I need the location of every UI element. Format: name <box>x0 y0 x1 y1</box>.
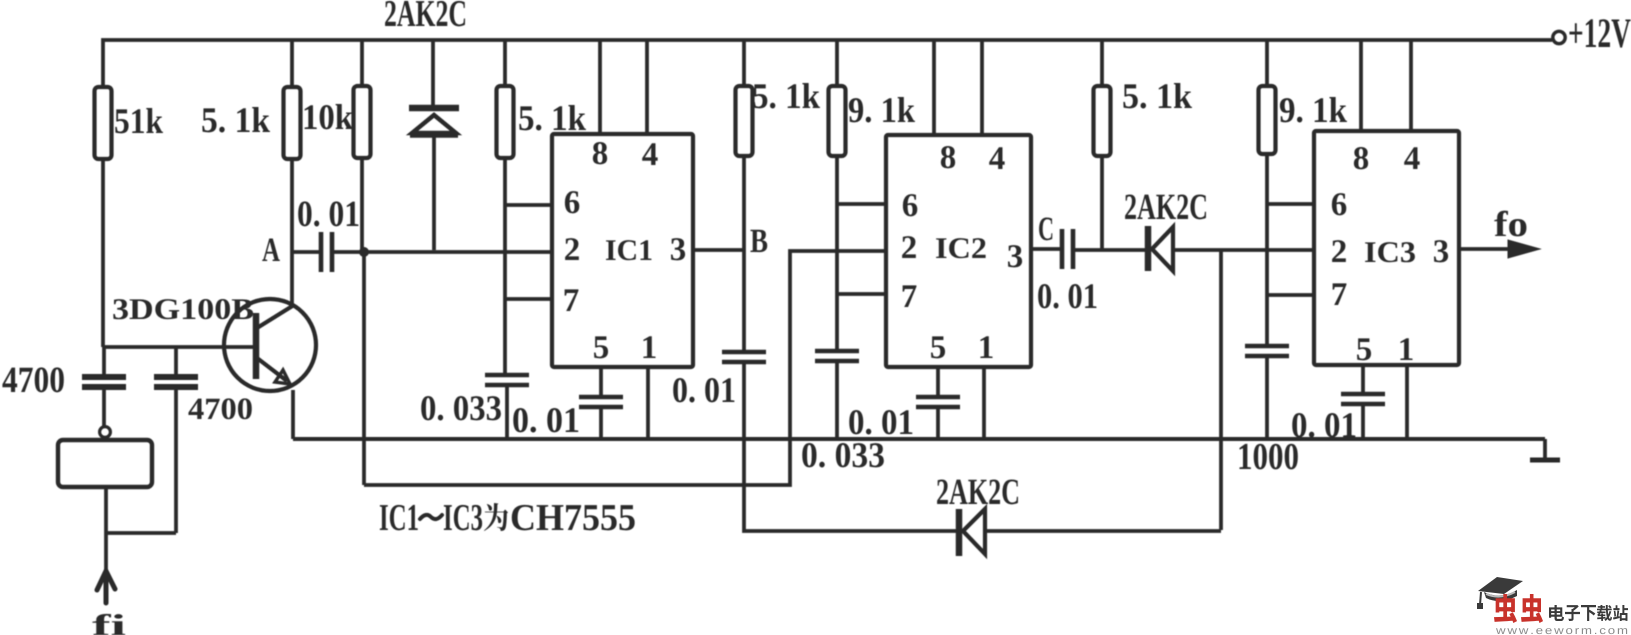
capacitor 0.01 IC3 pin5 <box>1341 392 1385 397</box>
resistor R1 51k <box>101 159 105 347</box>
crystal box <box>58 440 152 487</box>
ground symbol right end <box>1543 439 1547 459</box>
IC2 pin 1 wire down <box>982 367 986 439</box>
capacitor 0.01 coupling at A <box>319 232 324 272</box>
diode D2 2AK2C horizontal <box>1145 226 1152 271</box>
label 2AK2C top <box>385 1 465 27</box>
label 1000 <box>1239 444 1297 470</box>
IC1 pin 5 label <box>594 336 608 358</box>
wire node B cap down to bottom diode line <box>744 362 956 531</box>
IC2 pin 4 wire <box>980 41 984 135</box>
label node C <box>1039 217 1052 240</box>
+12V terminal circle <box>1553 31 1565 43</box>
IC3 pin 1 label <box>1400 338 1412 360</box>
label node A <box>262 239 280 261</box>
label fo <box>1494 211 1526 237</box>
IC1 pin 6 label <box>565 191 579 213</box>
logo graduation cap icon <box>1478 577 1523 594</box>
IC1 pin 8 wire <box>598 41 602 134</box>
power rail +12V <box>103 40 1552 87</box>
IC3 pin 6 label <box>1332 193 1346 215</box>
fo arrowhead <box>1508 240 1540 258</box>
IC3 pin 7 label <box>1333 283 1347 305</box>
junction dot node A <box>359 247 369 257</box>
label 0.01 at C <box>1038 284 1096 308</box>
IC2 pin 6 label <box>903 194 917 216</box>
resistor R8 9.1k IC3 timing <box>1265 41 1269 86</box>
IC2 pin 1 label <box>980 336 992 358</box>
capacitor C4 4700 right <box>174 347 178 374</box>
label 0.033 IC1 <box>421 396 501 420</box>
IC1 pin 3 label <box>671 238 685 260</box>
label 4700 left <box>2 367 63 392</box>
label 9.1k R6 <box>849 97 915 122</box>
wire C cap to diode D2 <box>1074 248 1145 252</box>
IC1 pin 4 wire <box>645 41 649 134</box>
IC3 pin 4 wire <box>1409 41 1413 131</box>
wire lower cross line to IC2 pin2 <box>364 251 886 485</box>
transistor Q1 3DG100B <box>224 299 316 391</box>
note IC1-IC3 is CH7555 <box>380 505 418 531</box>
label 4700 right <box>188 398 251 419</box>
transistor base bar <box>253 313 260 379</box>
IC3 pin 3 output wire fo <box>1459 247 1512 251</box>
IC1 pin 4 label <box>642 143 657 165</box>
capacitor 0.01 node B <box>722 350 766 355</box>
diode D1 2AK2C vertical <box>431 41 435 108</box>
IC1 pin 8 label <box>593 142 607 164</box>
label 0.01 IC1 pin5 <box>513 408 578 432</box>
IC2 pin 2 label <box>902 236 916 258</box>
label +12V <box>1569 19 1630 47</box>
IC3 pin 3 label <box>1434 240 1448 262</box>
label 0.033 IC2 <box>802 443 884 467</box>
IC3 pin 4 label <box>1404 147 1419 169</box>
IC3 pin 1 wire down <box>1405 365 1409 439</box>
label 3DG100B <box>113 299 253 319</box>
label 2AK2C D2 <box>1125 195 1206 220</box>
logo text dianzi xiazaizhan <box>1549 605 1564 621</box>
IC1 pin 1 wire down <box>646 367 650 439</box>
IC2 name label <box>936 238 986 258</box>
IC2 pin 3 stub to C cap <box>1031 247 1061 251</box>
label 5.1k R5 <box>753 83 820 108</box>
fi input arrow <box>97 571 115 603</box>
op-amp U1 IC1 CH7555 box <box>552 134 693 367</box>
IC3 pin 6 stub <box>1267 202 1314 206</box>
resistor R3 10k <box>360 41 364 86</box>
capacitor C2 0.033 IC1 <box>485 373 529 378</box>
resistor R5 5.1k node B pullup <box>742 41 746 86</box>
label 0.01 node B <box>673 378 734 402</box>
IC1 pin 6 stub <box>505 203 552 207</box>
label 0.01 IC2 pin5 <box>849 410 912 434</box>
transistor base lead <box>103 345 253 349</box>
label 5.1k R2 <box>202 107 270 132</box>
emitter wire to ground rail <box>291 390 295 439</box>
IC3 pin 5 wire down <box>1361 365 1365 394</box>
IC2 pin 6 stub <box>837 202 886 206</box>
IC1 pin 1 label <box>643 336 655 358</box>
logo url text <box>1496 628 1627 634</box>
IC2 pin 7 stub <box>837 292 886 296</box>
label 10k <box>305 104 353 129</box>
wire diode D2 to IC3 pin2 <box>1173 248 1314 252</box>
capacitor 0.01 IC2 pin5 <box>916 395 960 400</box>
label node B <box>750 230 767 252</box>
IC3 pin 8 wire <box>1359 41 1363 131</box>
label 2AK2C D3 <box>937 480 1018 505</box>
IC1 pin 3 stub to node B <box>693 248 744 252</box>
IC1 pin 7 stub <box>505 297 552 301</box>
IC2 pin 4 label <box>989 147 1004 169</box>
label 0.01 at A <box>298 201 358 226</box>
label 5.1k R4 <box>519 105 586 130</box>
crystal terminal circle <box>100 427 111 438</box>
capacitor 1000 IC3 <box>1245 344 1289 349</box>
capacitor 0.01 coupling C <box>1060 229 1065 269</box>
transistor emitter diagonal with arrow <box>257 358 287 381</box>
op-amp U3 IC3 CH7555 box <box>1314 131 1459 365</box>
IC3 pin 2 label <box>1332 240 1346 262</box>
IC1 pin 5 wire down <box>599 367 603 397</box>
resistor R4 5.1k IC1 timing <box>503 41 507 86</box>
resistor R7 5.1k <box>1100 41 1104 86</box>
IC1 pin 7 label <box>565 289 579 311</box>
capacitor 0.033 IC2 <box>815 349 859 354</box>
label 5.1k R7 <box>1123 83 1192 108</box>
label 0.01 IC3 pin5 <box>1292 413 1355 437</box>
label fi <box>92 614 125 635</box>
IC2 pin 5 wire down <box>936 367 940 397</box>
wire node A junction down to cross line <box>362 252 366 485</box>
capacitor C3 4700 left <box>102 347 106 374</box>
wire cap to IC1 pin2 <box>333 250 552 254</box>
IC3 pin 8 label <box>1354 147 1368 169</box>
wire junction down to bottom diode line <box>1219 250 1223 530</box>
IC2 pin 8 label <box>941 146 955 168</box>
wire bottom diode line right segment <box>985 529 1221 533</box>
ground rail horizontal <box>293 437 1545 441</box>
logo chongchong red characters <box>1494 594 1517 623</box>
IC2 pin 8 wire <box>932 41 936 135</box>
op-amp U2 IC2 CH7555 box <box>886 135 1031 367</box>
IC2 pin 7 label <box>903 285 917 307</box>
IC3 pin 7 stub <box>1267 293 1314 297</box>
wire crystal bottom to fi <box>106 487 176 571</box>
resistor R6 9.1k IC2 timing <box>835 41 839 86</box>
IC2 pin 5 label <box>931 336 945 358</box>
IC1 pin 2 label <box>565 238 579 260</box>
resistor R2 5.1k <box>290 41 294 87</box>
transistor collector diagonal <box>257 305 294 328</box>
label 51k <box>115 108 163 133</box>
IC3 name label <box>1365 242 1415 262</box>
diode D3 2AK2C bottom <box>956 509 963 556</box>
IC1 name label <box>606 240 651 260</box>
capacitor 0.01 IC1 pin5 <box>579 395 623 400</box>
IC3 pin 5 label <box>1357 338 1371 360</box>
IC2 pin 3 label <box>1008 245 1022 267</box>
node A wire with coupling capacitor <box>292 250 320 254</box>
label 9.1k R8 <box>1280 97 1347 122</box>
